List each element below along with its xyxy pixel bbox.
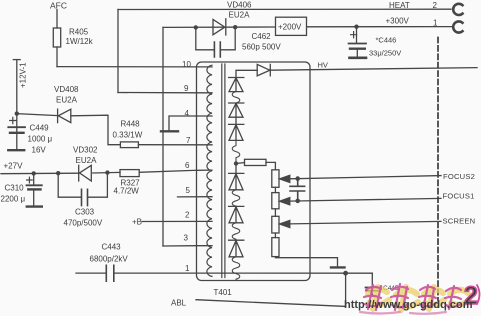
svg-text:+27V: +27V <box>4 162 24 171</box>
svg-text:3: 3 <box>184 234 189 243</box>
svg-text:1: 1 <box>185 264 190 273</box>
wiper arrow FOCUS1 <box>280 198 290 205</box>
rail +27V <box>1 172 120 173</box>
transformer T401 box <box>197 62 311 281</box>
svg-text:FOCUS2: FOCUS2 <box>443 172 475 181</box>
ground (C449) <box>8 149 24 151</box>
transformer core lines <box>222 64 225 278</box>
node dot C446 junction <box>354 25 358 29</box>
svg-text:AFC: AFC <box>50 1 67 11</box>
svg-text:9: 9 <box>184 84 189 93</box>
connector +300V (pin 1) <box>453 21 462 32</box>
resistor bleeder R-b <box>272 193 279 209</box>
svg-text:EU2A: EU2A <box>229 11 251 20</box>
svg-text:2: 2 <box>433 1 438 10</box>
box +200V <box>276 17 307 35</box>
capacitor C446 <box>356 27 358 43</box>
resistor bleeder top (horizontal) <box>236 162 245 165</box>
resistor bleeder R-d <box>272 238 279 257</box>
diode chain D6 <box>229 240 244 257</box>
winding squiggle <box>232 140 240 163</box>
svg-text:R405: R405 <box>69 28 89 37</box>
svg-text:+B: +B <box>132 218 142 227</box>
dashed CRT boundary <box>437 38 439 308</box>
wire pin 10 horizontal <box>57 66 197 68</box>
svg-text:C462: C462 <box>252 32 272 41</box>
wire pin 3 horizontal <box>163 245 197 247</box>
wire VD408 to R448 <box>71 115 121 145</box>
svg-text:VD406: VD406 <box>227 1 252 10</box>
svg-text:C303: C303 <box>75 208 95 217</box>
svg-text:ABL: ABL <box>171 299 187 308</box>
wire <box>274 187 276 192</box>
svg-text:*C446: *C446 <box>376 36 397 45</box>
node dot VD302 cathode <box>105 170 109 174</box>
svg-text:+12V-1: +12V-1 <box>19 62 28 88</box>
wire dot to C445 <box>371 273 373 287</box>
capacitor C445 <box>366 288 380 291</box>
rail +12V-1 tick <box>13 59 20 61</box>
wire HV output <box>270 68 477 71</box>
svg-text:2: 2 <box>185 211 190 220</box>
svg-text:EU2A: EU2A <box>76 156 98 165</box>
pin 6 stub <box>197 169 213 171</box>
ground (C310) <box>27 205 42 207</box>
node dot VD406 anode <box>194 25 198 29</box>
svg-text:+200V: +200V <box>278 23 302 32</box>
wire FOCUS1 <box>290 198 441 201</box>
pin 3 stub <box>197 245 213 247</box>
wiper arrow SCREEN <box>280 220 290 227</box>
wire <box>235 117 237 124</box>
svg-text:1W/12k: 1W/12k <box>66 37 94 46</box>
rail +12V-1 vertical <box>16 60 18 133</box>
capacitor C303 branch <box>58 173 107 198</box>
svg-text:4.7/2W: 4.7/2W <box>114 187 140 196</box>
node dot +12V junction <box>15 111 19 115</box>
capacitor C443 <box>106 265 114 281</box>
svg-text:HEAT: HEAT <box>389 1 410 10</box>
winding squiggle <box>232 223 240 240</box>
wire pin 9 horizontal <box>118 92 197 94</box>
diode chain D2 <box>229 103 244 117</box>
capacitor focus filter <box>290 179 305 201</box>
wire dot down to ABL line <box>345 273 347 306</box>
svg-text:5: 5 <box>186 186 191 195</box>
svg-text:EU2A: EU2A <box>56 96 78 105</box>
node dot focus cap bottom <box>295 199 300 204</box>
diode HV rectifier <box>257 64 270 76</box>
svg-text:33μ/250V: 33μ/250V <box>369 49 401 58</box>
wire +12V node to VD408 <box>17 114 58 116</box>
pin 1 stub / wire through to C445 <box>76 272 372 274</box>
svg-text:1000 μ: 1000 μ <box>28 135 53 144</box>
transformer primary winding arcs <box>207 65 212 276</box>
wire vertical to pin 9 <box>117 10 119 93</box>
pin 9 stub <box>197 92 213 94</box>
svg-text:0.33/1W: 0.33/1W <box>113 131 143 140</box>
pin 10 stub <box>197 66 213 68</box>
node dot VD302 anode <box>56 171 60 175</box>
resistor R327 <box>120 170 139 177</box>
ground (bleeder) <box>331 266 345 268</box>
secondary diode-split chain: wire top <box>236 70 257 77</box>
wire FOCUS2 <box>290 176 441 179</box>
resistor R405 <box>53 28 60 47</box>
capacitor C449 plus sign <box>10 117 16 123</box>
wire <box>274 233 276 238</box>
svg-text:10: 10 <box>182 60 191 69</box>
resistor bleeder R-c <box>272 216 279 233</box>
svg-text:6: 6 <box>185 161 190 170</box>
svg-text:C310: C310 <box>5 184 25 193</box>
watermark <box>344 282 480 314</box>
svg-text:1: 1 <box>433 19 438 28</box>
svg-text:470p/500V: 470p/500V <box>64 219 103 228</box>
svg-text:VD302: VD302 <box>73 146 98 155</box>
wire ABL line <box>196 300 346 307</box>
diode VD408 <box>58 109 71 122</box>
pin 5 stub <box>178 196 213 198</box>
svg-text:R448: R448 <box>121 120 141 129</box>
winding squiggle <box>232 257 240 280</box>
svg-text:FOCUS1: FOCUS1 <box>443 191 475 200</box>
capacitor C310 plus sign <box>27 177 33 183</box>
wire long vertical to pin 3 <box>162 27 164 246</box>
pin 4 stub <box>197 115 213 117</box>
svg-text:16V: 16V <box>32 146 47 155</box>
wire from +200V box to connector 1 <box>307 26 453 28</box>
node dot VD406 cathode <box>233 25 237 29</box>
diode chain D3 <box>229 124 244 140</box>
svg-text:2200 μ: 2200 μ <box>1 195 26 204</box>
node dot C310 <box>32 171 36 175</box>
svg-text:+300V: +300V <box>386 17 410 26</box>
wire SCREEN <box>290 221 441 224</box>
svg-text:7: 7 <box>186 136 191 145</box>
resistor bleeder R-a <box>272 170 279 188</box>
wire VD406 anode line <box>163 26 275 28</box>
node dot ABL junction <box>343 271 348 276</box>
diode chain D1 <box>229 78 244 92</box>
capacitor C462 (snubber across VD406) <box>196 27 235 50</box>
svg-text:C449: C449 <box>30 124 50 133</box>
wire top HEAT line <box>118 8 451 10</box>
node dot focus cap top <box>295 176 300 181</box>
wiper arrow FOCUS2 <box>280 175 290 182</box>
svg-text:560p 500V: 560p 500V <box>242 43 281 52</box>
svg-text:HV: HV <box>318 61 328 70</box>
pin 2 stub (+B) <box>142 220 212 222</box>
wire <box>274 209 276 217</box>
wire pin 4 to ground <box>169 116 197 131</box>
svg-text:SCREEN: SCREEN <box>443 216 476 225</box>
ground (pin 4) <box>161 130 178 132</box>
svg-text:VD408: VD408 <box>54 85 79 94</box>
diode chain D4 <box>229 173 244 189</box>
capacitor C310 <box>33 173 35 185</box>
wire R448 to pin 7 <box>138 144 196 146</box>
diode chain D5 <box>229 206 244 222</box>
diode VD302 <box>79 165 92 181</box>
capacitor C449 <box>8 126 25 128</box>
wire bleeder bottom to ground <box>275 257 337 267</box>
resistor R448 <box>120 142 138 148</box>
connector HEAT (pin 2) <box>453 4 462 15</box>
svg-text:T401: T401 <box>214 288 233 297</box>
winding squiggle <box>232 92 240 103</box>
diode VD406 <box>213 19 226 35</box>
svg-text:C443: C443 <box>102 243 122 252</box>
node dot chain tap <box>234 161 238 165</box>
winding squiggle <box>232 190 240 207</box>
wire R405 to pin10 <box>56 47 58 67</box>
svg-text:6800p/2kV: 6800p/2kV <box>90 255 129 264</box>
svg-text:http://www.go-gddq.com: http://www.go-gddq.com <box>344 299 473 311</box>
pin 7 stub <box>197 144 213 146</box>
wire AFC down to R405 <box>56 10 58 29</box>
wire <box>235 164 237 174</box>
